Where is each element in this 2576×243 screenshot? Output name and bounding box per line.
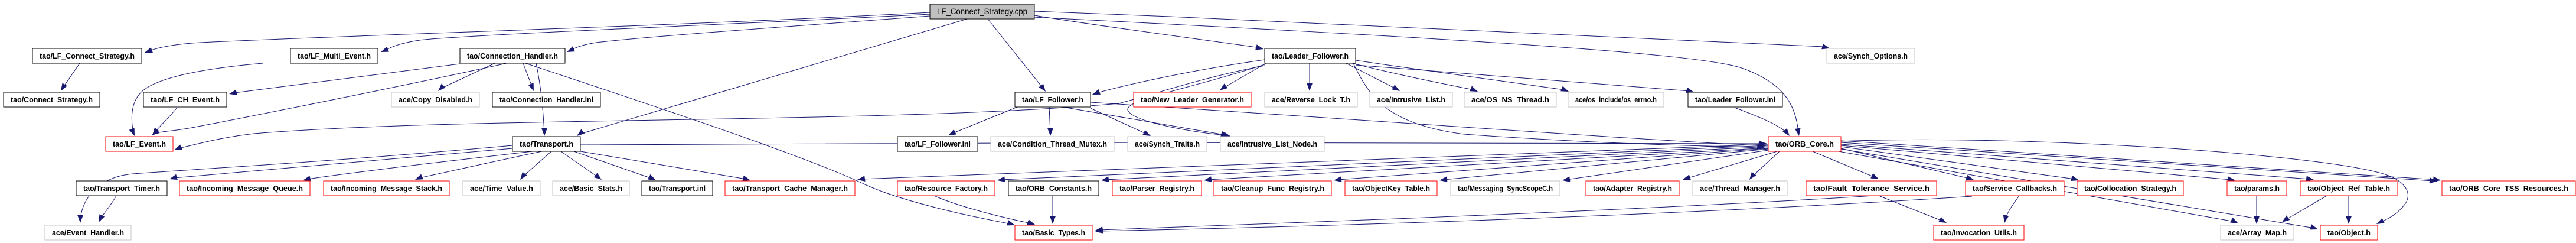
node tao/ORB_Constants.h	[1008, 181, 1099, 196]
svg-text:tao/Fault_Tolerance_Service.h: tao/Fault_Tolerance_Service.h	[1813, 184, 1929, 193]
node ace/Reverse_Lock_T.h	[1265, 92, 1357, 107]
edge root->lff	[988, 19, 1046, 92]
edge root->lfcs	[145, 12, 930, 53]
edge tr->trinl	[574, 151, 656, 180]
edge scb->iu	[2003, 196, 2019, 223]
svg-text:ace/Condition_Thread_Mutex.h: ace/Condition_Thread_Mutex.h	[998, 140, 1107, 148]
edge ort->am	[2282, 196, 2327, 222]
svg-text:tao/Connect_Strategy.h: tao/Connect_Strategy.h	[11, 95, 93, 104]
edge ch->copyd	[438, 63, 495, 91]
edge orbc->obj1	[1841, 149, 2318, 229]
node ace/Array_Map.h	[2221, 225, 2294, 240]
edge orbc->tss2	[1841, 142, 2437, 183]
node tao/Incoming_Message_Stack.h	[324, 181, 449, 196]
node tao/Basic_Types.h	[1015, 225, 1092, 240]
node tao/LF_Connect_Strategy.h	[32, 48, 142, 63]
node tao/Leader_Follower.h	[1265, 48, 1356, 63]
node tao/params.h	[2227, 181, 2287, 196]
svg-text:ace/Reverse_Lock_T.h: ace/Reverse_Lock_T.h	[1272, 95, 1350, 104]
edge tr->bs	[561, 151, 602, 180]
svg-text:tao/Leader_Follower.inl: tao/Leader_Follower.inl	[1695, 95, 1775, 104]
node ace/Basic_Stats.h	[553, 181, 629, 196]
edge orbc->ar	[1683, 151, 1777, 180]
edge orbc->thm	[1749, 151, 1780, 180]
edge scb->bt	[1095, 196, 1972, 234]
node tao/Transport_Timer.h	[76, 181, 167, 196]
svg-text:tao/Object.h: tao/Object.h	[2327, 228, 2371, 237]
edge lff->orbc	[1091, 102, 1766, 148]
svg-text:tao/LF_CH_Event.h: tao/LF_CH_Event.h	[151, 95, 220, 104]
node tao/Messaging_SyncScopeC.h	[1451, 181, 1560, 196]
edge ch->bt	[525, 63, 1015, 225]
svg-text:tao/Basic_Types.h: tao/Basic_Types.h	[1022, 228, 1085, 237]
edge orbc->tcm	[857, 144, 1768, 182]
svg-text:tao/Incoming_Message_Stack.h: tao/Incoming_Message_Stack.h	[331, 184, 442, 193]
edge root->orbc	[1034, 17, 1801, 136]
node ace/Intrusive_List.h	[1370, 92, 1452, 107]
svg-text:ace/Array_Map.h: ace/Array_Map.h	[2228, 228, 2287, 237]
edge root->lfme	[381, 14, 930, 52]
node ace/Event_Handler.h	[45, 225, 131, 240]
svg-text:tao/Collocation_Strategy.h: tao/Collocation_Strategy.h	[2084, 184, 2176, 193]
edge tr->evh	[77, 145, 512, 223]
node ace/Synch_Traits.h	[1128, 137, 1207, 151]
node ace/Synch_Options.h	[1827, 48, 1915, 63]
edge ch->lfev	[152, 63, 507, 135]
edge tr->ims	[415, 151, 542, 180]
edge orbk->bt	[1050, 196, 1056, 224]
edge fts->iu	[1879, 196, 1947, 223]
edge lf->nlg	[1220, 63, 1266, 90]
svg-text:tao/Transport.inl: tao/Transport.inl	[649, 184, 706, 193]
edge orbc->ort	[1841, 144, 2314, 182]
edge par->am	[2254, 196, 2260, 224]
node tao/Invocation_Utils.h	[1934, 225, 2024, 240]
edge lfcs->cs	[61, 63, 80, 91]
edge orbc->obj2	[1841, 140, 2408, 224]
svg-text:tao/Messaging_SyncScopeC.h: tao/Messaging_SyncScopeC.h	[1458, 184, 1553, 193]
edge rf->bt	[934, 196, 1035, 225]
node tao/LF_Follower.inl	[897, 137, 978, 151]
svg-text:ace/OS_NS_Thread.h: ace/OS_NS_Thread.h	[1471, 95, 1549, 104]
edge orbc->orbk	[1101, 147, 1768, 182]
node tao/LF_Event.h	[106, 137, 173, 151]
svg-text:tao/Leader_Follower.h: tao/Leader_Follower.h	[1272, 51, 1349, 60]
svg-text:tao/Adapter_Registry.h: tao/Adapter_Registry.h	[1593, 184, 1672, 193]
edge orbc->par	[1841, 145, 2235, 182]
edge tr->tcm	[580, 151, 750, 181]
edge root->lf	[1034, 15, 1263, 50]
edge tr->trt	[169, 148, 512, 180]
node tao/Transport_Cache_Manager.h	[725, 181, 855, 196]
edge ort->obj	[2346, 196, 2352, 224]
svg-text:tao/ObjectKey_Table.h: tao/ObjectKey_Table.h	[1352, 184, 1430, 193]
node ace/Condition_Thread_Mutex.h	[991, 137, 1114, 151]
svg-text:tao/Object_Ref_Table.h: tao/Object_Ref_Table.h	[2307, 184, 2390, 193]
svg-text:tao/Invocation_Utils.h: tao/Invocation_Utils.h	[1941, 228, 2017, 237]
node tao/Connect_Strategy.h	[4, 92, 100, 107]
edge orbc->tss1	[1841, 141, 2441, 182]
svg-text:tao/ORB_Core_TSS_Resources.h: tao/ORB_Core_TSS_Resources.h	[2449, 184, 2568, 193]
node LF_Connect_Strategy.cpp	[930, 4, 1034, 19]
edge lff->iln	[1063, 107, 1229, 137]
edge lf->lff	[1092, 60, 1265, 95]
edge orbc->scb	[1841, 148, 1974, 180]
node tao/Connection_Handler.h	[460, 48, 565, 63]
edge trt->evh	[99, 196, 116, 222]
edge lff->synct	[1091, 108, 1151, 136]
node tao/ORB_Core_TSS_Resources.h	[2442, 181, 2575, 196]
svg-text:tao/LF_Connect_Strategy.h: tao/LF_Connect_Strategy.h	[40, 51, 135, 60]
edge orbc->rf	[997, 145, 1768, 182]
edge lf->lfinl	[1356, 65, 1694, 93]
svg-text:tao/Incoming_Message_Queue.h: tao/Incoming_Message_Queue.h	[187, 184, 303, 193]
edge lfch->lfev	[152, 108, 177, 135]
node tao/ORB_Core.h	[1768, 137, 1841, 151]
svg-text:tao/ORB_Core.h: tao/ORB_Core.h	[1775, 140, 1834, 148]
node tao/Transport.h	[512, 137, 580, 151]
edge orbc->cost	[1841, 147, 2079, 181]
svg-text:tao/LF_Multi_Event.h: tao/LF_Multi_Event.h	[298, 51, 371, 60]
svg-text:ace/os_include/os_errno.h: ace/os_include/os_errno.h	[1575, 95, 1657, 104]
svg-text:tao/Transport_Cache_Manager.h: tao/Transport_Cache_Manager.h	[732, 184, 848, 193]
node ace/Copy_Disabled.h	[391, 92, 479, 107]
svg-text:ace/Intrusive_List.h: ace/Intrusive_List.h	[1377, 95, 1445, 104]
svg-text:tao/Resource_Factory.h: tao/Resource_Factory.h	[905, 184, 988, 193]
svg-text:tao/Service_Callbacks.h: tao/Service_Callbacks.h	[1973, 184, 2057, 193]
svg-text:ace/Time_Value.h: ace/Time_Value.h	[470, 184, 533, 193]
node tao/Transport.inl	[642, 181, 713, 196]
node tao/Connection_Handler.inl	[492, 92, 600, 107]
node tao/Adapter_Registry.h	[1586, 181, 1679, 196]
svg-text:tao/Cleanup_Func_Registry.h: tao/Cleanup_Func_Registry.h	[1221, 184, 1324, 193]
node tao/LF_Follower.h	[1015, 92, 1091, 107]
node tao/LF_Multi_Event.h	[290, 48, 378, 63]
svg-text:ace/Event_Handler.h: ace/Event_Handler.h	[52, 228, 124, 237]
edge lfinl->orbc	[1735, 108, 1790, 136]
svg-text:ace/Thread_Manager.h: ace/Thread_Manager.h	[1700, 184, 1780, 193]
node ace/Thread_Manager.h	[1693, 181, 1787, 196]
edge root->ch	[567, 16, 930, 52]
node tao/Object_Ref_Table.h	[2300, 181, 2397, 196]
edge ch->chinl	[523, 63, 534, 91]
edge fts->bt	[1095, 196, 1875, 232]
svg-text:tao/New_Leader_Generator.h: tao/New_Leader_Generator.h	[1141, 95, 1244, 104]
edge lf->intl	[1346, 63, 1400, 91]
node tao/Object.h	[2320, 225, 2378, 240]
svg-text:tao/Parser_Registry.h: tao/Parser_Registry.h	[1119, 184, 1194, 193]
edge lf->iln	[1128, 64, 1265, 138]
edge lf->osns	[1352, 63, 1478, 92]
svg-text:tao/ORB_Constants.h: tao/ORB_Constants.h	[1016, 184, 1092, 193]
edge orbc->am	[1839, 151, 2238, 223]
edge root->tr	[577, 19, 967, 136]
svg-text:ace/Synch_Options.h: ace/Synch_Options.h	[1834, 51, 1908, 60]
svg-text:tao/Transport_Timer.h: tao/Transport_Timer.h	[83, 184, 160, 193]
node ace/Intrusive_List_Node.h	[1220, 137, 1324, 151]
edge ch->lfch	[229, 64, 460, 95]
edge lf->oserr	[1356, 60, 1569, 92]
node tao/Incoming_Message_Queue.h	[179, 181, 310, 196]
edge root->syncopt	[1034, 11, 1830, 49]
svg-text:tao/Connection_Handler.h: tao/Connection_Handler.h	[467, 51, 558, 60]
node tao/Service_Callbacks.h	[1966, 181, 2064, 196]
edge lf->revl	[1307, 63, 1313, 91]
edge ch->tr	[536, 63, 547, 136]
edge lf->orbc	[1353, 63, 1765, 150]
svg-text:LF_Connect_Strategy.cpp: LF_Connect_Strategy.cpp	[937, 7, 1027, 16]
node tao/LF_CH_Event.h	[143, 92, 227, 107]
node tao/ObjectKey_Table.h	[1345, 181, 1437, 196]
svg-text:ace/Basic_Stats.h: ace/Basic_Stats.h	[560, 184, 622, 193]
node ace/OS_NS_Thread.h	[1464, 92, 1556, 107]
edge tr->orbc	[580, 141, 1767, 147]
edge lfme->lfev	[129, 63, 263, 136]
svg-text:tao/LF_Event.h: tao/LF_Event.h	[113, 140, 166, 148]
edge lf->lfev	[174, 66, 1265, 150]
node tao/Parser_Registry.h	[1112, 181, 1202, 196]
node tao/Collocation_Strategy.h	[2077, 181, 2183, 196]
edge lff->ctm	[1047, 107, 1053, 136]
edge orbc->msync	[1562, 150, 1768, 182]
node tao/Cleanup_Func_Registry.h	[1214, 181, 1331, 196]
node tao/Leader_Follower.inl	[1688, 92, 1782, 107]
svg-text:tao/params.h: tao/params.h	[2234, 184, 2280, 193]
svg-text:tao/LF_Follower.h: tao/LF_Follower.h	[1022, 95, 1083, 104]
edge tr->imq	[303, 151, 533, 182]
node tao/New_Leader_Generator.h	[1134, 92, 1251, 107]
svg-text:ace/Intrusive_List_Node.h: ace/Intrusive_List_Node.h	[1227, 140, 1317, 148]
node ace/os_include/os_errno.h	[1568, 92, 1664, 107]
node tao/Fault_Tolerance_Service.h	[1806, 181, 1937, 196]
edge lff->lffinl	[948, 107, 1017, 135]
edge orbc->okt	[1439, 149, 1768, 182]
node ace/Time_Value.h	[463, 181, 540, 196]
svg-text:tao/Connection_Handler.inl: tao/Connection_Handler.inl	[499, 95, 593, 104]
edge orbc->cfr	[1334, 148, 1768, 182]
edge orbc->fts	[1813, 151, 1879, 179]
node tao/Resource_Factory.h	[897, 181, 995, 196]
svg-text:tao/LF_Follower.inl: tao/LF_Follower.inl	[905, 140, 971, 148]
svg-text:ace/Synch_Traits.h: ace/Synch_Traits.h	[1135, 140, 1200, 148]
edge orbc->pr	[1204, 148, 1768, 182]
svg-text:tao/Transport.h: tao/Transport.h	[520, 140, 573, 148]
edge tr->tv	[520, 151, 551, 180]
svg-text:ace/Copy_Disabled.h: ace/Copy_Disabled.h	[399, 95, 472, 104]
